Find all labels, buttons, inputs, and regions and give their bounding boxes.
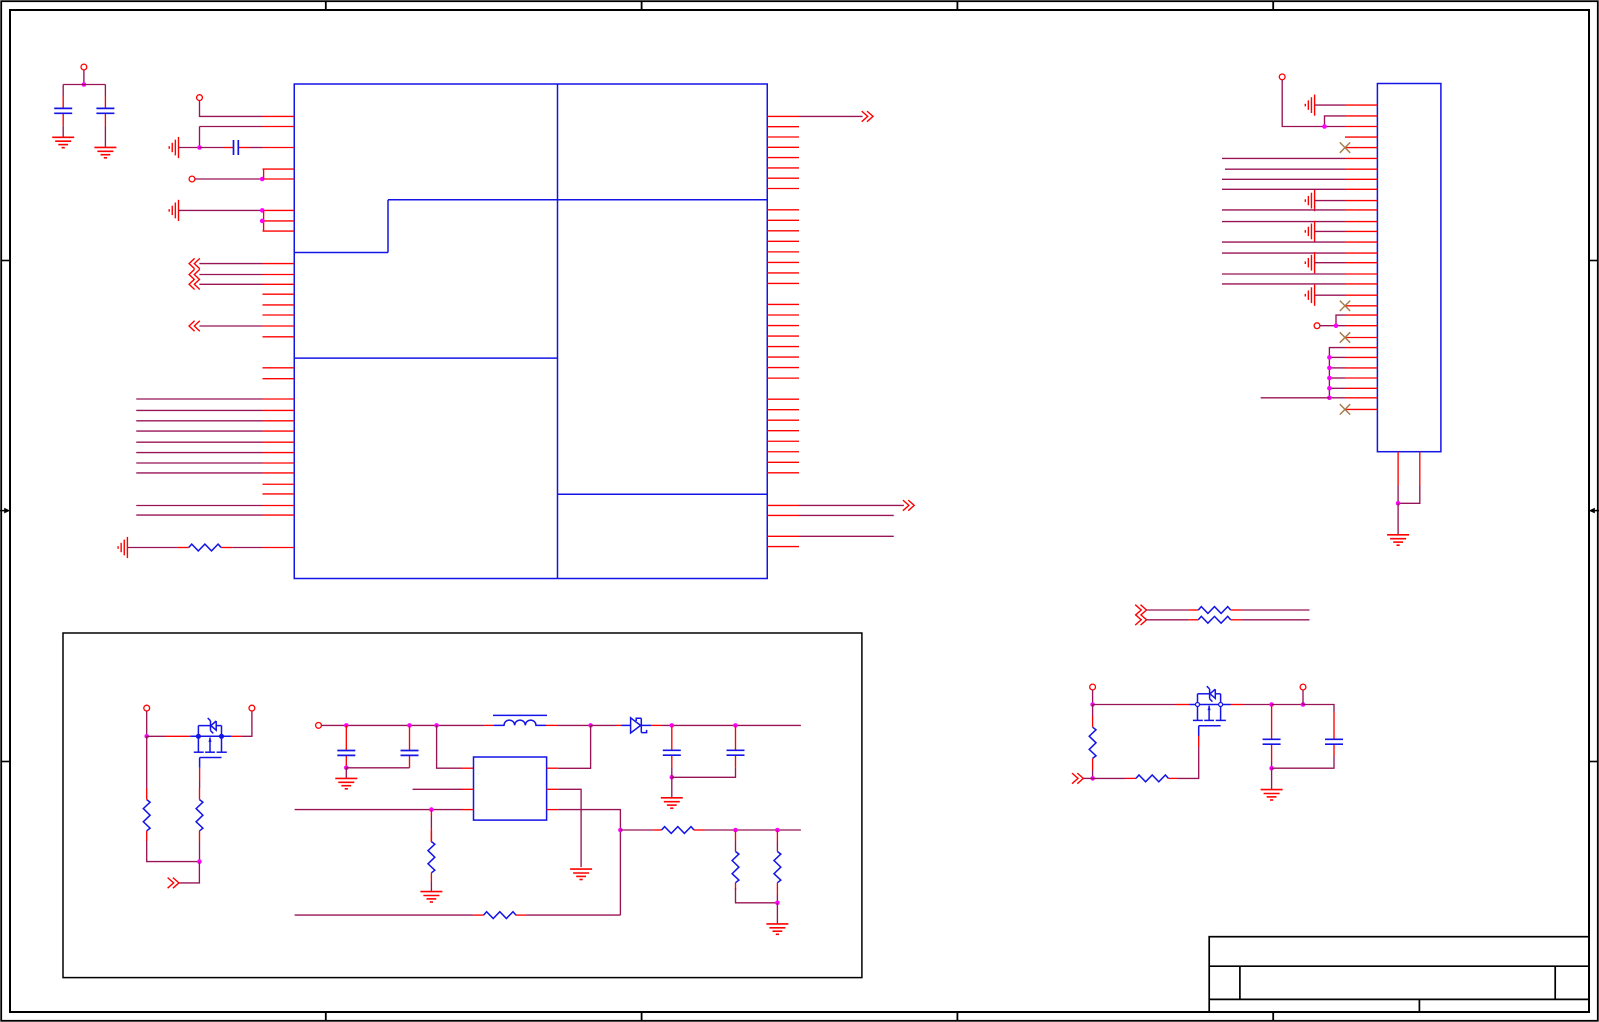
Q1 left lead	[147, 735, 191, 737]
Q2 right lead	[1231, 704, 1272, 706]
wire J1 row	[1222, 241, 1345, 243]
wire P5 row	[1320, 325, 1345, 327]
ground	[94, 147, 116, 157]
wire gate row	[1093, 777, 1125, 779]
power port P10	[1300, 684, 1306, 690]
wire bottom left pin	[1397, 486, 1399, 504]
junction	[618, 828, 623, 833]
port P8 input	[316, 723, 322, 729]
resistor R5 leads (gate)	[199, 768, 201, 862]
power port P9	[1090, 684, 1096, 690]
border zone ticks top	[326, 1, 1273, 10]
wire cap rail	[63, 84, 105, 86]
ground	[1387, 535, 1409, 545]
wire chain row	[1329, 367, 1345, 369]
port P5	[1314, 323, 1320, 329]
junction	[588, 723, 593, 728]
border zone ticks right	[1589, 261, 1598, 762]
power port P1	[81, 64, 87, 70]
junction	[1090, 702, 1095, 707]
wire chain row	[1329, 387, 1345, 389]
wire J1 row	[1222, 188, 1345, 190]
wire fb row	[620, 829, 653, 831]
resistor R1	[189, 544, 221, 551]
resistor R7 leads	[653, 829, 705, 831]
transistor Q2	[1189, 686, 1230, 736]
wire U2 pin2 stub	[413, 788, 462, 790]
wire row2 elbow	[1325, 116, 1346, 127]
wire out br2	[799, 514, 894, 516]
wire A2	[199, 274, 262, 276]
wire out top right	[799, 115, 863, 117]
diode D1 leads	[616, 724, 663, 726]
resistor R8 leads	[736, 830, 778, 903]
resistor R5	[196, 800, 203, 831]
no connect	[1340, 142, 1350, 152]
junction	[1327, 396, 1332, 401]
resistor R4 leads	[147, 736, 200, 861]
junction	[260, 219, 265, 224]
offsheet arrow A9	[168, 878, 179, 889]
capacitor C3	[234, 140, 239, 155]
capacitor C9 leads	[1272, 712, 1334, 768]
capacitor C2 leads	[104, 85, 106, 148]
IC U1 body	[294, 84, 767, 579]
Q1 right lead	[231, 711, 252, 736]
wire gnd row	[1315, 230, 1345, 232]
wire gnd pin row2	[200, 126, 263, 128]
wire to ground	[776, 903, 778, 924]
wire bottom rail left	[295, 914, 474, 916]
junction	[434, 723, 439, 728]
wire gnd to R1	[127, 547, 177, 549]
junction	[429, 807, 434, 812]
wire gnd drop 2	[671, 777, 673, 797]
wire gnd to junction	[179, 147, 200, 149]
junction	[82, 82, 87, 87]
wire A4	[199, 325, 262, 327]
wire E2 right	[1241, 619, 1309, 621]
resistor R1 leads	[178, 547, 263, 549]
wire diode seg	[591, 724, 616, 726]
wire long row 505	[136, 505, 262, 507]
J1 bottom pins	[1398, 452, 1420, 486]
J1 left pins	[1345, 105, 1377, 409]
wire to ground	[1397, 503, 1399, 534]
wire J1 row	[1225, 168, 1345, 170]
junction	[1269, 702, 1274, 707]
capacitor C6 leads	[671, 725, 673, 767]
ground GND4	[1305, 95, 1314, 116]
capacitor C3 series leads	[224, 147, 263, 149]
no connect	[1340, 301, 1350, 311]
wire long row	[1261, 397, 1330, 399]
offsheet arrow A1	[189, 258, 200, 268]
wire arrow stub	[1083, 777, 1092, 779]
wire E1 left	[1147, 609, 1189, 611]
no connect	[1340, 332, 1350, 342]
pin link rows 6-8	[263, 210, 265, 231]
resistor R12 leads	[1125, 777, 1178, 779]
junction	[344, 766, 349, 771]
wire row elbow	[1336, 315, 1345, 326]
wire A3	[199, 283, 262, 285]
resistor R11 leads	[1092, 705, 1094, 779]
junction	[344, 723, 349, 728]
wire C6 bottom	[671, 768, 673, 778]
wire J1 row	[1222, 209, 1345, 211]
power port P7	[249, 705, 255, 711]
capacitor C5	[401, 751, 419, 756]
wire J1 row	[1222, 157, 1345, 159]
junction	[670, 723, 675, 728]
wire chain row	[1329, 397, 1345, 399]
resistor R3 leads	[1189, 619, 1242, 621]
junction	[1327, 376, 1332, 381]
wire to C9	[1303, 705, 1334, 713]
junction	[1269, 766, 1274, 771]
junction	[197, 859, 202, 864]
wire J1 row	[1222, 273, 1345, 275]
capacitor C8	[1263, 739, 1281, 744]
offsheet arrow A5	[862, 111, 873, 122]
junction	[1334, 323, 1339, 328]
offsheet arrow A3	[189, 279, 200, 289]
offsheet arrow A7	[1135, 605, 1146, 616]
wire bottom right pin	[1398, 486, 1420, 504]
junction	[775, 901, 780, 906]
capacitor C9	[1325, 739, 1343, 744]
resistor R2	[1198, 607, 1230, 614]
junction	[733, 828, 738, 833]
wire U2 gnd	[558, 789, 581, 867]
wire fb out	[558, 810, 620, 916]
inductor L1 leads	[484, 724, 558, 726]
capacitor C4	[337, 751, 355, 756]
border zone ticks left	[1, 261, 10, 762]
power port P4	[1279, 74, 1285, 80]
ground GND1	[169, 137, 178, 158]
junction	[1301, 702, 1306, 707]
wire gnd row	[1315, 294, 1345, 296]
junction	[670, 775, 675, 780]
wire row2 drop	[199, 127, 201, 148]
wire to ground	[1271, 768, 1273, 789]
junction	[1322, 124, 1327, 129]
power port P2	[197, 95, 203, 101]
wire to P10	[1272, 704, 1303, 706]
wire L1 to sw	[558, 724, 591, 726]
wire gnd row1	[1315, 104, 1345, 106]
junction	[1327, 366, 1332, 371]
wire out br3	[799, 535, 894, 537]
wire cap bottoms	[346, 767, 409, 769]
ground GND5	[1305, 190, 1314, 211]
wire P4 to row3	[1282, 80, 1345, 127]
Q2 left lead	[1093, 704, 1190, 706]
offsheet arrow A4	[189, 321, 200, 331]
wire J1 row	[1222, 221, 1345, 223]
wire out rail	[662, 724, 801, 726]
resistor R6 vertical	[430, 816, 432, 891]
Q2 gate red lead	[1198, 736, 1200, 747]
wire input rail	[321, 724, 484, 726]
wire E2 left	[1147, 619, 1189, 621]
inductor L1	[493, 715, 547, 725]
wire fb row 2	[705, 829, 801, 831]
ground GND8	[1305, 285, 1314, 306]
wire sw drop	[558, 725, 590, 768]
border center arrow left	[0, 508, 10, 514]
resistor R8	[732, 852, 739, 883]
diode D1	[621, 718, 651, 733]
offsheet arrow A6	[903, 500, 914, 511]
resistor R10	[484, 912, 516, 919]
ground	[52, 137, 74, 147]
border zone ticks bottom	[326, 1012, 1273, 1021]
pin link rows 4-5	[263, 169, 265, 179]
junction	[407, 723, 412, 728]
ground GND7	[1305, 252, 1314, 273]
resistor R6	[428, 842, 435, 873]
capacitor C7 leads	[735, 725, 737, 767]
resistor R3	[1198, 616, 1230, 623]
wire bottom rail right	[526, 914, 620, 916]
resistor R9	[774, 852, 781, 883]
junction	[1327, 386, 1332, 391]
resistor R2 leads	[1189, 609, 1242, 611]
capacitor C8 leads	[1271, 705, 1273, 769]
transistor Q1	[190, 718, 231, 768]
wire J1 row	[1222, 283, 1345, 285]
wire gnd row	[1315, 262, 1345, 264]
no connect	[1340, 404, 1350, 414]
capacitor C1 leads	[62, 85, 64, 138]
junction	[733, 723, 738, 728]
offsheet arrow A8	[1135, 615, 1146, 626]
wire out br1	[799, 504, 904, 506]
junction	[775, 828, 780, 833]
resistor R10 leads	[473, 914, 526, 916]
wire long row 515	[136, 514, 262, 516]
wire fb rail	[295, 809, 462, 811]
ground	[661, 798, 683, 808]
resistor R7	[662, 827, 694, 834]
wire junction to cap	[200, 147, 224, 149]
junction	[1396, 501, 1401, 506]
regulator U2 body	[474, 757, 547, 820]
wire gnd row	[1315, 200, 1345, 202]
ground	[1261, 790, 1283, 800]
power section frame	[63, 633, 862, 978]
wire A1	[199, 263, 262, 265]
port P3	[189, 176, 195, 182]
offsheet arrow A10	[1072, 773, 1083, 784]
wire P3 to junction	[195, 178, 262, 180]
capacitor C2	[96, 108, 114, 113]
wire gate row2	[1178, 747, 1199, 778]
wire E1 right	[1241, 609, 1309, 611]
wire gnd drop	[345, 768, 347, 778]
capacitor C5 leads	[409, 725, 411, 767]
wire vin drop	[437, 725, 462, 768]
resistor R4	[143, 800, 150, 831]
wire cap bottoms 2	[672, 768, 736, 778]
ground GND6	[1305, 221, 1314, 242]
wire P2 to pin	[200, 101, 263, 117]
wire to arrow	[179, 862, 200, 883]
ground GND2	[169, 200, 178, 221]
wire J1 row	[1222, 252, 1345, 254]
junction	[144, 734, 149, 739]
junction	[260, 208, 265, 213]
wire J1 row	[1222, 178, 1345, 180]
wire chain row	[1329, 356, 1345, 358]
capacitor C4 leads	[345, 725, 347, 767]
wire P9 down	[1092, 690, 1094, 705]
resistor R12	[1136, 775, 1168, 782]
junction	[197, 145, 202, 150]
junction	[1090, 776, 1095, 781]
wire P6 down	[146, 711, 148, 736]
capacitor C1	[54, 108, 72, 113]
resistor R6 leads	[430, 810, 432, 842]
bus wires into U1	[136, 399, 262, 473]
resistor R9 leads	[776, 830, 778, 903]
capacitor C6	[663, 750, 681, 755]
wire chain top	[1329, 348, 1345, 398]
ground	[570, 869, 592, 879]
resistor R11	[1089, 727, 1096, 758]
ground GND3	[118, 537, 127, 558]
title block	[1209, 937, 1589, 1012]
power port P6	[144, 705, 150, 711]
capacitor C7	[727, 750, 745, 755]
U1 left pins	[263, 116, 295, 547]
wire chain row	[1329, 377, 1345, 379]
wire P1 to caps	[83, 70, 85, 85]
wire gnd row	[179, 209, 263, 211]
ground	[420, 892, 442, 902]
border center arrow right	[1589, 508, 1599, 514]
junction	[1327, 355, 1332, 360]
ground	[335, 778, 357, 788]
U2 pin1 lead	[462, 767, 474, 769]
junction	[260, 177, 265, 182]
ground	[766, 924, 788, 934]
U2 pin leads	[462, 768, 558, 809]
U1 right pins	[767, 116, 799, 546]
connector J1 body	[1377, 84, 1441, 452]
offsheet arrow A2	[189, 269, 200, 279]
wire P10 down	[1302, 690, 1304, 705]
